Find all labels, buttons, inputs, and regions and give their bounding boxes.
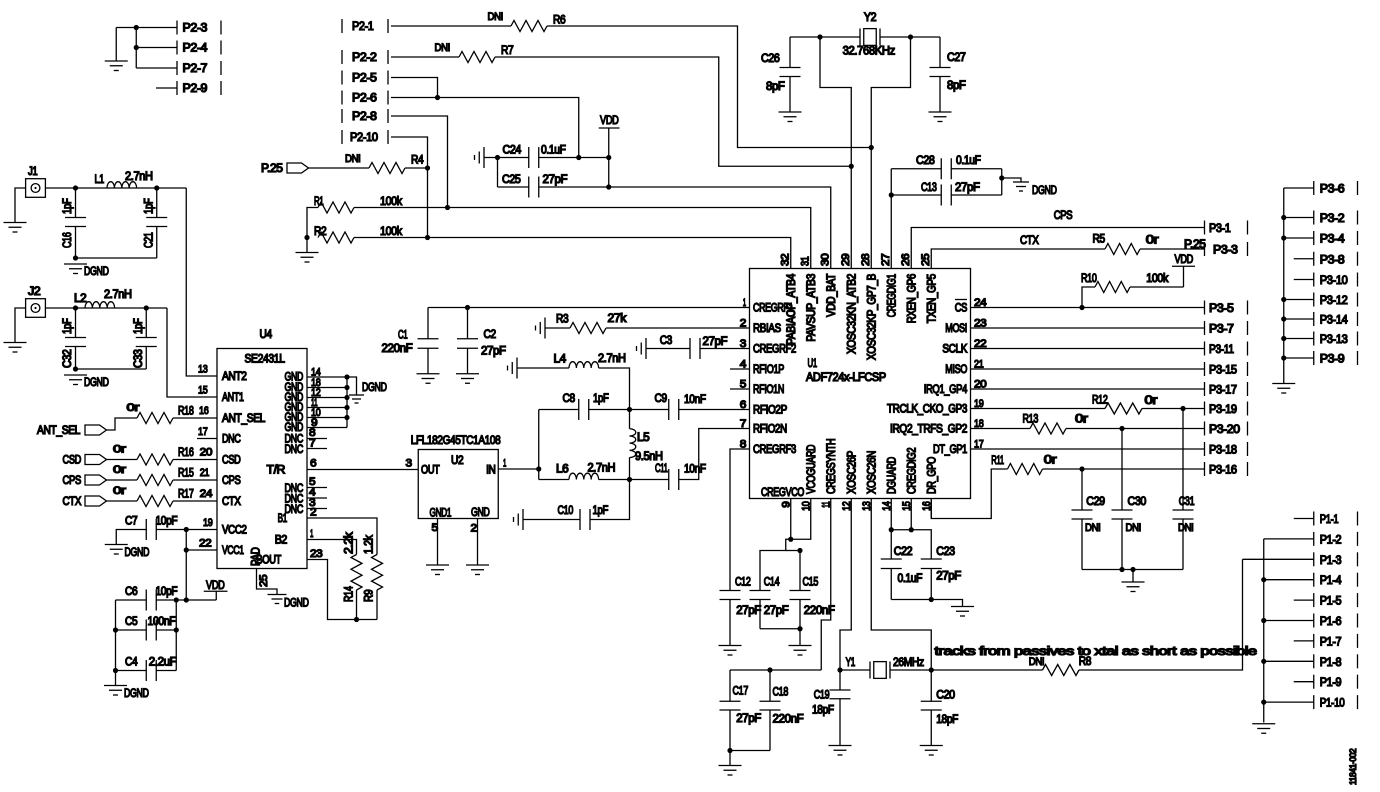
U1 pin 8 CREGRF3 [740, 439, 796, 457]
U1 pin 2 RBIAS [740, 318, 782, 336]
wire J1 to ground [15, 188, 26, 223]
label C28 [916, 155, 935, 167]
U1 pin 25 TXEN_GP5 [920, 253, 939, 323]
wire pin18 to R13 [971, 428, 1031, 430]
label R10 [1081, 273, 1097, 285]
label R11 value [1044, 455, 1057, 467]
svg-text:XOSC32KP_GP7_B: XOSC32KP_GP7_B [866, 273, 878, 360]
svg-text:P2-1: P2-1 [352, 21, 374, 33]
connector pin P3-3 [1205, 242, 1248, 257]
svg-text:ANT2: ANT2 [222, 371, 247, 383]
svg-text:MOSI: MOSI [945, 323, 967, 335]
svg-text:C23: C23 [936, 546, 955, 558]
label C8 value [593, 393, 609, 405]
capacitor C33 [136, 308, 157, 369]
wire J1 line [45, 187, 186, 189]
svg-text:1pF: 1pF [593, 393, 609, 405]
junction C17 bottom [727, 748, 732, 753]
connector pin P3-19 [1205, 402, 1248, 417]
capacitor C13 [941, 185, 951, 206]
U4 pin label DNC17 [198, 426, 241, 446]
wire R10 to CS line [1082, 287, 1095, 308]
wire Y1 right lead [890, 669, 931, 671]
wire C28 right [951, 168, 1002, 170]
svg-text:C11: C11 [655, 463, 668, 475]
svg-text:13: 13 [198, 364, 208, 376]
svg-text:LFL182G45TC1A108: LFL182G45TC1A108 [411, 435, 501, 447]
label C25 value [543, 174, 568, 186]
label R2 value [380, 226, 402, 238]
svg-text:C6: C6 [125, 586, 137, 598]
U1 pin 16 DR_GPO [921, 457, 939, 519]
svg-text:XOSC32KN_ATB2: XOSC32KN_ATB2 [846, 274, 858, 354]
label R18 [178, 406, 194, 418]
junction gnd bus [344, 374, 349, 379]
svg-text:U2: U2 [451, 455, 463, 467]
svg-text:C7: C7 [125, 516, 137, 528]
wire CTX pin25 to R5 [931, 249, 1105, 257]
svg-text:9.5nH: 9.5nH [635, 451, 663, 463]
label C26 value [766, 81, 785, 93]
svg-text:P1-5: P1-5 [1320, 596, 1342, 608]
connector ANT_SEL [37, 425, 107, 437]
U1 pin 17 DT_GP1 [933, 439, 984, 457]
svg-text:R10: R10 [1081, 273, 1097, 285]
wire P3 bus to ground [1283, 358, 1285, 384]
svg-text:VCC2: VCC2 [222, 525, 247, 537]
label C2 [484, 329, 496, 341]
svg-text:0.1uF: 0.1uF [898, 573, 923, 585]
svg-text:P3-5: P3-5 [1209, 303, 1234, 315]
wire bus to ground [1132, 570, 1134, 583]
svg-text:L5: L5 [637, 432, 649, 444]
label C15 value [804, 605, 835, 617]
resistor R8 [1043, 665, 1080, 676]
label C10 value [593, 505, 609, 517]
wire C10 to node [590, 480, 630, 520]
svg-text:18: 18 [974, 418, 984, 430]
svg-text:19: 19 [974, 398, 984, 410]
svg-text:2.7nH: 2.7nH [125, 171, 153, 183]
svg-text:ANT_SEL: ANT_SEL [37, 425, 81, 437]
connector pin P3-12 [1314, 293, 1358, 308]
capacitor C17 [720, 670, 741, 751]
ground C27 [929, 112, 952, 122]
svg-text:24: 24 [974, 297, 987, 309]
resistor R17 [137, 496, 173, 507]
wire C25 left [498, 186, 529, 188]
U1 pin 4 RFIO1P [740, 359, 785, 377]
connector pin P1-2 [1314, 532, 1358, 547]
svg-text:21: 21 [200, 467, 210, 479]
svg-text:IRQ1_GP4: IRQ1_GP4 [924, 384, 968, 396]
wire R1 left [307, 208, 318, 238]
wire C6 left down [115, 600, 117, 686]
label C16 value [62, 198, 74, 214]
U1 pin 1 CREGRF1 [743, 297, 793, 315]
label C5 [125, 616, 137, 628]
junction C23 bottom [929, 597, 934, 602]
capacitor C27 [930, 37, 951, 112]
connector pin P1-1 [1314, 512, 1358, 527]
ground left of R3 [536, 318, 546, 339]
label C27 [947, 52, 966, 64]
svg-text:P1-7: P1-7 [1320, 636, 1342, 648]
U1 pin 5 stub [730, 388, 750, 390]
junction C28 gnd tap [999, 175, 1004, 180]
ground left of L4 [508, 358, 518, 379]
svg-text:C8: C8 [563, 393, 575, 405]
label C10 [558, 505, 574, 517]
junction C13 left [889, 192, 894, 197]
connector pin P3-1 [1205, 221, 1248, 236]
connector CSD [63, 455, 107, 467]
junction C33 top [144, 305, 149, 310]
wire C11 to RFIO2N [679, 429, 750, 480]
wire Y2 left [790, 36, 860, 38]
U1 pin 14 DGUARD [881, 457, 899, 518]
connector pin P3-18 [1205, 442, 1248, 457]
svg-text:PAD: PAD [251, 547, 263, 566]
svg-text:DGND: DGND [125, 547, 150, 559]
U1 pin 9 CREGVCO [780, 499, 792, 519]
label DNI R7 [435, 42, 451, 54]
U1 pin 19 TRCLK_CKO_GP3 [887, 398, 984, 416]
wire C4 right [156, 670, 176, 672]
svg-text:R11: R11 [991, 455, 1004, 467]
wire R13 to P3-20 [1066, 428, 1205, 430]
wire C28 left [891, 168, 941, 170]
svg-text:27pF: 27pF [703, 336, 728, 348]
wire R12 to P3-19 [1142, 408, 1205, 410]
power VDD R10 [1172, 254, 1195, 287]
U1 pin 30 VDD_BAT [819, 253, 838, 317]
svg-text:1: 1 [743, 297, 746, 309]
svg-text:DGND: DGND [284, 598, 309, 610]
wire IRQ1 to P3-17 [971, 388, 1205, 390]
capacitor C9 [669, 399, 679, 420]
wire DNI cap bus [1082, 569, 1183, 571]
connector pin P1-8 [1314, 654, 1358, 669]
label L1 value [125, 171, 153, 183]
svg-text:1: 1 [503, 458, 506, 470]
label C20 value [936, 714, 958, 726]
label C26 [761, 53, 780, 65]
label C5 value [148, 616, 176, 628]
figure number [1348, 748, 1358, 785]
wire C32-C33 bottom [76, 368, 147, 370]
label C8 [563, 393, 575, 405]
wire P3-12 [1284, 299, 1314, 301]
junction R11/C29 [1079, 466, 1084, 471]
crystal Y1 [870, 662, 890, 679]
svg-text:12: 12 [841, 501, 853, 511]
U1 pin 3 CREGRF2 [740, 338, 796, 356]
svg-text:27: 27 [880, 253, 892, 266]
svg-text:25: 25 [258, 574, 270, 587]
svg-text:P3-9: P3-9 [1320, 354, 1345, 366]
label R14 [344, 586, 356, 602]
wire P1-9 stub [1294, 681, 1314, 683]
svg-text:0.1uF: 0.1uF [956, 155, 981, 167]
label C32 [62, 350, 74, 369]
wire C24-C25 left [497, 158, 499, 188]
svg-text:20: 20 [974, 379, 987, 391]
svg-text:220nF: 220nF [773, 714, 804, 726]
svg-text:100k: 100k [380, 226, 402, 238]
capacitor C23 [921, 559, 942, 600]
wire P.25 to R4 [309, 167, 370, 169]
junction C5 right [174, 627, 179, 632]
U2 pin IN [486, 458, 506, 477]
svg-text:100k: 100k [380, 196, 402, 208]
connector pin P1-4 [1314, 573, 1358, 588]
label R14 value [344, 532, 356, 554]
label C17 [733, 686, 749, 698]
svg-text:CTX: CTX [222, 496, 241, 508]
U4 GND pin 9 [285, 417, 348, 434]
wire gnd to C24 [484, 157, 529, 159]
resistor R7 [459, 52, 495, 63]
label net CTX [1020, 235, 1039, 247]
label J1 [28, 166, 37, 178]
svg-text:2.7nH: 2.7nH [104, 289, 132, 301]
svg-text:P1-8: P1-8 [1320, 657, 1342, 669]
label R17 value 0r [113, 485, 126, 497]
svg-text:C19: C19 [814, 690, 830, 702]
capacitor C2 [457, 308, 478, 374]
label C12 [735, 577, 751, 589]
svg-text:P3-1: P3-1 [1209, 223, 1231, 235]
svg-text:0r: 0r [1145, 395, 1158, 407]
svg-text:P1-6: P1-6 [1320, 616, 1342, 628]
label U2 [451, 455, 463, 467]
ground left of C10 [514, 509, 524, 530]
label C33 value [133, 318, 145, 334]
wire L4 left [517, 367, 569, 369]
label C1 value [382, 343, 413, 355]
junction P3-9 [1281, 355, 1286, 360]
svg-text:R12: R12 [1092, 395, 1108, 407]
connector pin P3-5 [1205, 301, 1248, 316]
svg-text:XOSC26P: XOSC26P [846, 450, 858, 494]
label R12 value [1145, 395, 1158, 407]
junction C24/C25 left [495, 155, 500, 160]
svg-text:CREGSYNTH: CREGSYNTH [826, 439, 838, 494]
junction gnd bus [344, 405, 349, 410]
svg-text:P1-10: P1-10 [1320, 698, 1345, 710]
svg-text:IN: IN [486, 465, 495, 477]
junction R4/P2-10 [425, 165, 430, 170]
label C19 [814, 690, 830, 702]
wire C8 left [539, 409, 579, 411]
U4 B1 pin 2 [278, 507, 317, 526]
wire C13 right [951, 194, 1002, 196]
junction P1-4 [1261, 577, 1266, 582]
wire R2 to ground [306, 238, 308, 253]
junction C18 top [767, 667, 772, 672]
connector pin P3-7 [1205, 321, 1248, 336]
svg-text:27k: 27k [608, 313, 627, 325]
svg-text:CTX: CTX [1020, 235, 1039, 247]
svg-text:P3-18: P3-18 [1209, 445, 1237, 457]
label C29 [1086, 496, 1105, 508]
label R3 value [608, 313, 627, 325]
svg-text:2.2k: 2.2k [344, 532, 356, 554]
svg-text:C24: C24 [503, 145, 522, 157]
junction gnd bus [344, 415, 349, 420]
connector pin P2-5 [342, 71, 388, 85]
wire VCC1 [186, 549, 217, 551]
U1 pin 26 RXEN_GP6 [900, 253, 919, 323]
label C21 value [143, 198, 155, 214]
svg-text:C14: C14 [764, 577, 780, 589]
label net CPS [1054, 210, 1073, 222]
U1 pin 15 CREGDIG2 [901, 448, 919, 519]
wire L1 out to ANT2 [186, 188, 217, 376]
svg-text:ANT_SEL: ANT_SEL [222, 413, 266, 425]
svg-text:10pF: 10pF [156, 586, 178, 598]
connector pin P2-4 [177, 41, 221, 55]
label DNI R8 [1029, 656, 1045, 668]
svg-text:25: 25 [920, 253, 932, 266]
U4 pin label ANT_SEL [199, 405, 266, 425]
wire P2-5 [391, 78, 438, 98]
svg-text:C32: C32 [62, 350, 74, 369]
connector pin P3-2 [1314, 211, 1358, 226]
wire bus P2-3 to P2-7 [135, 28, 137, 69]
wire pin14 down [890, 519, 892, 560]
svg-text:8pF: 8pF [766, 81, 785, 93]
label C6 [125, 586, 137, 598]
junction P3-14 [1281, 316, 1286, 321]
svg-text:DGUARD: DGUARD [886, 457, 898, 494]
svg-text:6: 6 [310, 458, 317, 470]
svg-text:RBIAS: RBIAS [753, 323, 781, 335]
svg-text:P3-13: P3-13 [1320, 334, 1348, 346]
label R3 [556, 314, 568, 326]
svg-text:26MHz: 26MHz [893, 657, 924, 669]
connector CTX [63, 496, 107, 508]
label C3 value [703, 336, 728, 348]
label C22 [894, 546, 913, 558]
capacitor C21 [146, 188, 167, 258]
svg-text:L2: L2 [74, 293, 86, 305]
junction P3-4 [1281, 235, 1286, 240]
U4 GND pin 10 [285, 407, 348, 424]
label R1 value [380, 196, 402, 208]
label R13 value [1075, 414, 1088, 426]
svg-text:P2-8: P2-8 [352, 111, 377, 123]
resistor R5 [1105, 244, 1140, 255]
wire C28-C13 right [1001, 169, 1003, 195]
resistor R13 [1030, 423, 1066, 434]
wire CSD [107, 459, 138, 461]
label C4 value [149, 657, 177, 669]
svg-text:CREGRF3: CREGRF3 [753, 444, 796, 456]
svg-text:15: 15 [901, 501, 913, 511]
svg-text:0r: 0r [127, 402, 140, 414]
connector pin P3-20 [1205, 422, 1248, 437]
U1 pin 22 SCLK [942, 338, 986, 356]
label U2 part [411, 435, 501, 447]
junction R10/CS [1079, 305, 1084, 310]
resistor R1 [318, 202, 354, 213]
svg-text:23: 23 [310, 548, 323, 560]
U4 PAD pin 25 [251, 547, 271, 587]
svg-text:CREGVCO: CREGVCO [761, 487, 804, 499]
label R10 value [1146, 273, 1168, 285]
svg-text:R8: R8 [1079, 656, 1091, 668]
label DNI R6 [488, 11, 504, 23]
junction IN node [536, 466, 541, 471]
capacitor C22 [881, 559, 902, 600]
ground P1 [1252, 724, 1275, 734]
svg-text:CREGDIG2: CREGDIG2 [906, 448, 918, 494]
svg-text:P3-8: P3-8 [1320, 254, 1345, 266]
junction C32 bottom [73, 366, 78, 371]
wire J2 to ground [15, 308, 26, 343]
ground DGND J2 [64, 375, 109, 389]
capacitor C3 [690, 338, 700, 359]
wire P1-3 [1243, 558, 1314, 560]
wire pin16 to R11 [931, 469, 1007, 519]
connector pin P2-1 [342, 19, 388, 33]
label U1 [808, 358, 817, 370]
inductor L4 [569, 362, 599, 368]
wire P3-8 stub [1294, 258, 1314, 260]
note xtal tracks [935, 646, 1257, 658]
resistor R12 [1105, 403, 1142, 414]
label U4 part [245, 354, 286, 366]
capacitor C8 [579, 399, 589, 420]
svg-text:27pF: 27pF [936, 571, 961, 583]
wire P2-4 row [136, 47, 177, 49]
label R16 [178, 447, 194, 459]
U1 pin 4 stub [730, 368, 750, 370]
wire C28 to pin27 [890, 169, 892, 257]
label C29 DNI [1085, 522, 1101, 534]
capacitor C4 [146, 660, 156, 681]
label C17 value [736, 713, 761, 725]
U1 pin 7 RFIO2N [740, 418, 787, 436]
svg-text:3: 3 [740, 338, 747, 350]
svg-text:L4: L4 [554, 354, 567, 366]
ground C17 [719, 766, 742, 776]
wire R7 to XOSC32KN [495, 57, 851, 166]
wire R15 to U4 [173, 479, 217, 481]
svg-text:DR_GPO: DR_GPO [926, 457, 938, 494]
junction C25/VDD [606, 184, 611, 189]
U2 pin GND1 [430, 508, 452, 535]
label R9 [364, 590, 376, 602]
U4 DNC pin 5 [285, 476, 328, 495]
junction C5 left [113, 627, 118, 632]
wire P2-8 to R1 line [391, 116, 448, 208]
wire P2-1 to R6 [391, 25, 511, 27]
U1 pin 11 CREGSYNTH [820, 439, 838, 519]
wire P1-7 stub [1294, 640, 1314, 642]
svg-text:P3-19: P3-19 [1209, 404, 1237, 416]
svg-text:VDD: VDD [206, 580, 225, 592]
svg-text:C1: C1 [398, 330, 407, 342]
svg-text:DNC: DNC [285, 444, 304, 456]
svg-text:C29: C29 [1086, 496, 1105, 508]
svg-text:RXEN_GP6: RXEN_GP6 [906, 274, 918, 323]
label Y1 [846, 657, 855, 669]
svg-text:C16: C16 [62, 233, 74, 249]
svg-text:DNI: DNI [435, 42, 451, 54]
